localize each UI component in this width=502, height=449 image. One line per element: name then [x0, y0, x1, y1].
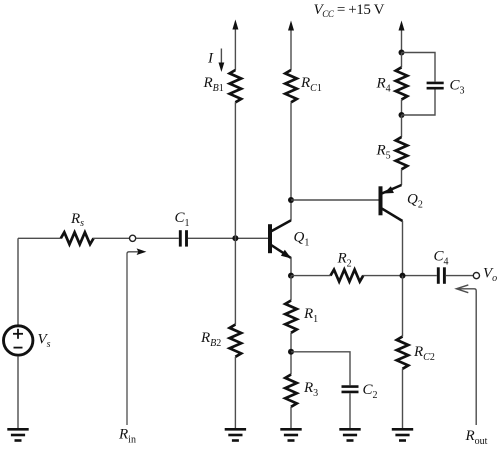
node base dot	[232, 235, 238, 241]
wire source bottom to ground	[17, 356, 19, 429]
wire C3 bottom branch	[402, 90, 436, 116]
wire left horizontal from source branch to Rs	[18, 237, 61, 239]
resistor R3	[285, 375, 297, 407]
wire C4 to output terminal	[446, 275, 473, 277]
node R4 bottom dot	[399, 112, 405, 118]
capacitor C3	[427, 83, 444, 88]
node collector dot	[288, 197, 294, 203]
node input terminal open circle	[130, 235, 136, 241]
wire RB1 to RB2 through base node	[234, 102, 236, 324]
capacitor C2	[342, 387, 359, 392]
wire R5 to Q2 emitter	[401, 169, 403, 185]
node R4 top dot	[399, 50, 405, 56]
resistor R4	[396, 67, 408, 99]
resistor RC2	[397, 337, 409, 369]
power arrow VCC on RB1 branch	[232, 20, 238, 71]
wire emitter node to R2	[291, 275, 331, 277]
wire output node to RC2	[402, 276, 404, 337]
node emitter dot	[288, 273, 294, 279]
source Vs	[4, 326, 33, 355]
wire emitter node to R1	[290, 276, 292, 301]
node R1 R3 dot	[288, 349, 294, 355]
wire Q2 collector down to output node	[402, 221, 404, 276]
wire Q1 emitter down to node	[290, 258, 292, 276]
resistor RB2	[230, 325, 242, 357]
current I arrow	[219, 49, 225, 73]
wire RB2 to ground	[234, 357, 236, 429]
wire collector node to Q2 base	[291, 199, 380, 201]
wire input terminal to C1	[136, 237, 179, 239]
wire source top	[17, 238, 19, 325]
capacitor C1	[180, 230, 186, 246]
resistor RB1	[230, 70, 242, 102]
capacitor C4	[438, 267, 444, 284]
transistor Q1	[270, 220, 291, 258]
ground under R3	[280, 429, 301, 440]
wire R1 to node	[290, 333, 292, 375]
ground under RC2	[392, 429, 413, 440]
wire R4 bottom	[401, 100, 403, 115]
wire Rs to input terminal	[93, 237, 129, 239]
arrow Rout measurement	[456, 285, 476, 425]
transistor Q2	[381, 185, 403, 221]
node output terminal open circle	[473, 273, 479, 279]
ground under C2	[339, 429, 360, 440]
wire C2 to ground	[349, 393, 351, 429]
wire R4 bottom to R5	[401, 115, 403, 137]
power arrow VCC on R4 branch	[399, 21, 405, 53]
svg-text:I: I	[207, 51, 214, 67]
node output dot	[400, 273, 406, 279]
wire R2 to C4	[363, 275, 437, 277]
wire RC1 to Q1 collector	[290, 102, 292, 221]
wire R4 top to resistor	[401, 53, 403, 68]
ground under RB2	[225, 429, 246, 440]
resistor Rs	[61, 232, 94, 244]
resistor R2	[331, 270, 364, 282]
wire C3 top branch	[402, 53, 436, 82]
resistor RC1	[285, 70, 297, 102]
resistor R5	[396, 137, 408, 169]
arrow Rin measurement	[127, 248, 146, 425]
wire R3 to ground	[290, 407, 292, 429]
resistor R1	[285, 301, 297, 333]
wire node to C2 branch	[291, 352, 350, 385]
power arrow VCC on RC1 branch	[288, 21, 294, 71]
ground under source	[7, 429, 28, 440]
wire RC2 to ground	[402, 369, 404, 429]
wire C1 to Q1 base	[188, 237, 270, 239]
